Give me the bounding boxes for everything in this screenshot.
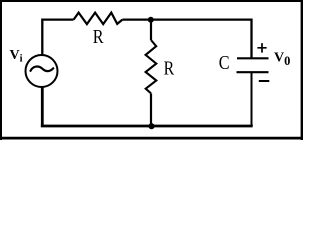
wire: source top to top-left corner to R1 left lead bbox=[42, 20, 73, 55]
svg-text:V0: V0 bbox=[274, 51, 290, 68]
node B (bottom junction dot) bbox=[148, 123, 154, 129]
voltage source V1 (Vi) circle bbox=[26, 55, 58, 87]
wire: bottom rail from source to node B to capacitor bbox=[41, 87, 253, 126]
wire: node A down to R2 bbox=[150, 20, 152, 40]
resistor R1 (series R, horizontal zigzag) bbox=[74, 13, 123, 25]
wire: R1 right lead to node A bbox=[122, 18, 151, 20]
capacitor C1 top plate bbox=[237, 57, 269, 59]
svg-text:C: C bbox=[219, 52, 230, 74]
capacitor C1 bottom plate bbox=[237, 71, 269, 73]
svg-text:R: R bbox=[164, 58, 175, 80]
voltage source V1 sine symbol bbox=[31, 67, 54, 72]
wire: node A to top-right corner to capacitor top bbox=[151, 19, 252, 59]
wire: capacitor bottom plate to bottom-right corner bbox=[251, 72, 253, 126]
resistor R2 (shunt R, vertical zigzag) bbox=[146, 40, 157, 93]
polarity minus sign bbox=[259, 80, 270, 82]
wire: R2 bottom to node B bbox=[150, 93, 152, 126]
polarity plus sign bbox=[257, 43, 266, 53]
node A (top junction dot) bbox=[148, 17, 154, 23]
svg-text:R: R bbox=[93, 26, 104, 48]
